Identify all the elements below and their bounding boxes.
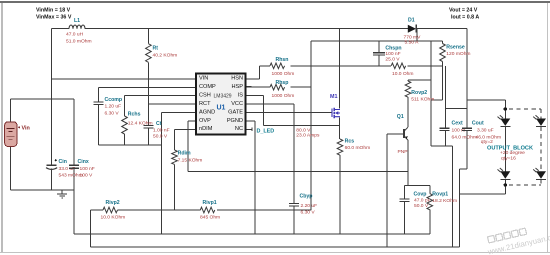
wire NC stub [246, 128, 252, 132]
diode D1 [404, 18, 422, 46]
svg-text:120 mOhm: 120 mOhm [446, 51, 470, 57]
capacitor Ccomp [94, 97, 122, 116]
svg-text:Rhsp: Rhsp [276, 80, 289, 86]
junction node LED- [504, 183, 507, 186]
svg-text:VinMin = 18 V: VinMin = 18 V [36, 8, 71, 14]
svg-text:Rsense: Rsense [446, 45, 465, 51]
svg-text:18.2 KOhm: 18.2 KOhm [432, 198, 457, 204]
watermark [484, 220, 550, 255]
M1 ratings [296, 127, 320, 138]
svg-text:COMP: COMP [199, 84, 216, 90]
wire Q1 base [387, 134, 404, 247]
transistor Q1 (PNP) [397, 114, 408, 155]
svg-text:LM3429: LM3429 [214, 94, 232, 100]
svg-text:RCT: RCT [199, 101, 211, 107]
svg-text:6.30 V: 6.30 V [105, 110, 120, 116]
svg-text:Vin: Vin [22, 126, 30, 132]
wire LED return [460, 169, 506, 247]
wire CSH net [125, 96, 197, 145]
resistor 10.0 Ohm [391, 63, 413, 77]
resistor Rcs [337, 138, 370, 155]
svg-text:Chspn: Chspn [385, 46, 401, 52]
svg-text:2.20 uF: 2.20 uF [301, 203, 318, 209]
svg-text:1.00 nF: 1.00 nF [153, 128, 170, 134]
svg-text:VCC: VCC [231, 101, 243, 107]
svg-text:Rhsn: Rhsn [276, 57, 289, 63]
svg-text:Rovp2: Rovp2 [411, 90, 427, 96]
LED D3 (output block, top-right) [533, 115, 546, 126]
svg-text:10.0 Ohm: 10.0 Ohm [392, 71, 413, 77]
resistor Rchs [122, 112, 153, 134]
wire Cext branch [431, 41, 467, 247]
svg-text:VinMax = 36 V: VinMax = 36 V [36, 15, 72, 21]
annotation VinMin/VinMax [36, 8, 72, 21]
wire LED string column 2 dashed [509, 109, 541, 185]
svg-text:CSH: CSH [199, 93, 211, 99]
svg-text:qty=2: qty=2 [481, 139, 493, 145]
svg-text:Rivp1: Rivp1 [203, 200, 217, 206]
wire switch node vertical / M1 drain [339, 29, 341, 109]
wire Rivp divider net [91, 41, 311, 210]
wire LED string column 1 [504, 127, 506, 194]
svg-text:IS: IS [238, 93, 244, 99]
svg-text:100 nF: 100 nF [385, 51, 400, 57]
capacitor Covp [399, 191, 430, 209]
svg-text:6.30 V: 6.30 V [301, 209, 316, 215]
wire ground rail [74, 233, 430, 235]
wire AGND common [99, 113, 196, 234]
svg-text:845 Ohm: 845 Ohm [200, 215, 220, 221]
wire PGND net [246, 121, 256, 234]
wire top rail (switch node) [52, 28, 467, 30]
svg-text:Rchs: Rchs [128, 112, 141, 118]
resistor Rivp2 [101, 200, 126, 221]
wire M1 source to Rcs to ground [339, 118, 341, 234]
resistor Rhsn [270, 57, 294, 77]
capacitor Chspn [373, 46, 402, 63]
capacitor Cbyp [289, 194, 317, 216]
svg-text:U1: U1 [217, 105, 226, 112]
svg-text:511 KOhm: 511 KOhm [411, 96, 434, 102]
wire Vout to output [467, 29, 505, 119]
wire Vout sense [311, 29, 442, 41]
svg-text:+20 degree: +20 degree [500, 150, 525, 156]
svg-text:80.0 V: 80.0 V [296, 127, 311, 133]
wire IS net [246, 96, 340, 126]
svg-text:25.0 V: 25.0 V [385, 56, 400, 62]
svg-text:3.30 uF: 3.30 uF [477, 127, 494, 133]
svg-text:1.20 uF: 1.20 uF [105, 104, 122, 110]
svg-text:60.0 mOhm: 60.0 mOhm [345, 145, 371, 151]
svg-text:Rcs: Rcs [345, 138, 355, 144]
svg-text:Covp: Covp [414, 191, 427, 197]
svg-text:PNP: PNP [398, 149, 408, 155]
wire Covp/Rovp1 branch [404, 186, 430, 234]
svg-text:PGND: PGND [227, 118, 243, 124]
svg-text:50.0 V: 50.0 V [153, 134, 168, 140]
capacitor Cext [440, 120, 477, 140]
wire HSP net [246, 86, 312, 88]
resistor Rivp1 [200, 200, 220, 221]
resistor Rhsp [270, 80, 294, 99]
resistor Rt [146, 44, 178, 63]
resistor Rovp1 [427, 192, 457, 210]
svg-text:Cext: Cext [452, 120, 464, 126]
svg-text:Cinx: Cinx [78, 159, 89, 165]
wire OVP chain vertical [407, 80, 409, 186]
svg-text:7.15 KOhm: 7.15 KOhm [178, 158, 203, 164]
annotation Vout/Iout [449, 8, 479, 21]
inductor L1 [66, 18, 92, 45]
wire HSN net [246, 66, 443, 79]
svg-text:Rt: Rt [153, 46, 159, 52]
wire Rsense branch [408, 41, 443, 100]
svg-text:100 V: 100 V [80, 172, 94, 178]
svg-text:Iout = 0.8 A: Iout = 0.8 A [451, 15, 479, 21]
svg-text:23.0 Amps: 23.0 Amps [296, 133, 320, 139]
svg-text:nDIM: nDIM [199, 126, 213, 132]
svg-text:OVP: OVP [199, 118, 211, 124]
svg-text:Cin: Cin [59, 159, 67, 165]
svg-text:Cbyp: Cbyp [300, 194, 313, 200]
resistor Rsense [440, 44, 471, 62]
svg-text:HSN: HSN [231, 76, 243, 82]
svg-text:64.0 mOhm: 64.0 mOhm [452, 134, 478, 140]
svg-text:L1: L1 [74, 18, 80, 24]
svg-text:Vout = 24 V: Vout = 24 V [449, 8, 478, 14]
wire GATE net [246, 112, 333, 114]
svg-text:GATE: GATE [228, 109, 243, 115]
wire VCC net [246, 104, 295, 234]
wire RCT net [148, 29, 196, 145]
wire Cout branch [460, 109, 468, 170]
svg-text:M1: M1 [330, 94, 338, 100]
capacitor Cin (polarized) [46, 159, 83, 179]
wire bottom return [91, 210, 460, 247]
node OUTPUT_BLOCK label [487, 146, 533, 162]
capacitor Ct [143, 121, 169, 140]
svg-text:Cout: Cout [472, 120, 484, 126]
svg-text:100 nF: 100 nF [80, 166, 95, 172]
svg-text:D_LED: D_LED [257, 129, 275, 135]
svg-text:D1: D1 [408, 18, 415, 24]
svg-text:NC: NC [235, 126, 243, 132]
wire OVP pin net [188, 121, 408, 172]
resistor Rovp2 [405, 81, 434, 102]
LED D2 (output block, top-left) [498, 115, 511, 126]
wire Vin bottom / input ground [11, 99, 74, 234]
svg-text:5.50 A: 5.50 A [405, 40, 420, 46]
capacitor Cout [462, 120, 501, 145]
resistor Rdim [172, 150, 203, 164]
voltage source Vin [5, 122, 30, 147]
svg-text:VIN: VIN [199, 76, 208, 82]
svg-text:HSP: HSP [231, 84, 243, 90]
wire Chspn branch [378, 41, 380, 66]
LED D4 (output block, bottom-left) [498, 168, 511, 179]
svg-text:qty=16: qty=16 [501, 155, 516, 161]
svg-text:1000 Ohm: 1000 Ohm [272, 93, 295, 99]
svg-text:Rivp2: Rivp2 [106, 200, 120, 206]
svg-text:Rovp1: Rovp1 [432, 192, 448, 198]
svg-text:Rdim: Rdim [178, 151, 191, 157]
transistor M1 (MOSFET) [330, 94, 340, 118]
svg-text:Ccomp: Ccomp [105, 97, 123, 103]
wire Vin net vertical [11, 29, 197, 166]
svg-text:50.0 V: 50.0 V [414, 203, 429, 209]
capacitor Cinx [69, 159, 95, 179]
wire COMP net [99, 87, 196, 145]
op-amp U1 LM3429 [190, 74, 252, 135]
svg-text:40.2 KOhm: 40.2 KOhm [153, 53, 178, 59]
svg-text:AGND: AGND [199, 109, 215, 115]
ground symbol [57, 190, 67, 198]
svg-text:1000 Ohm: 1000 Ohm [272, 71, 295, 77]
svg-text:Ct: Ct [156, 121, 162, 127]
svg-text:47.0 uH: 47.0 uH [66, 32, 84, 38]
wire nDIM net [175, 129, 197, 210]
svg-text:Q1: Q1 [397, 114, 404, 120]
svg-text:10.0 KOhm: 10.0 KOhm [101, 215, 126, 221]
svg-text:51.0 mOhm: 51.0 mOhm [66, 39, 92, 45]
LED D5 (output block, bottom-right) [533, 168, 546, 179]
junction node LED+ [504, 107, 507, 110]
